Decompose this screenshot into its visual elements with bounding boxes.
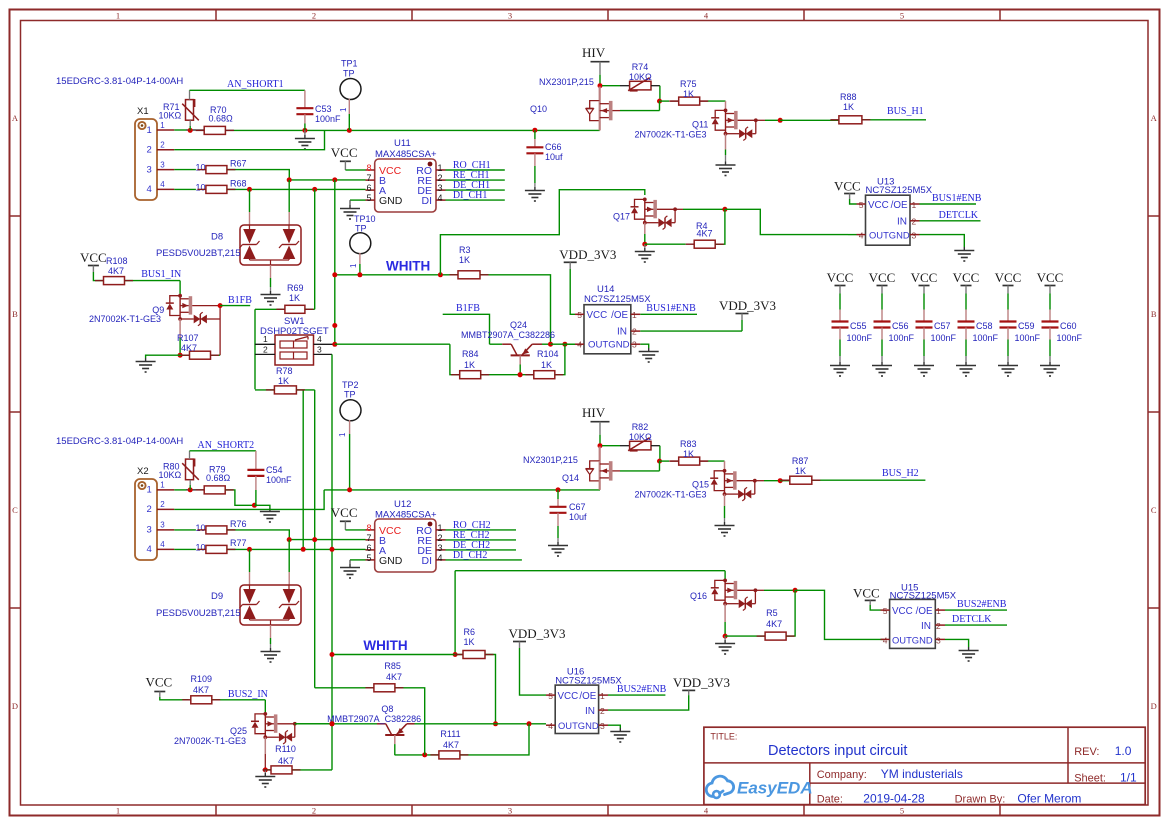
svg-text:4: 4 xyxy=(438,193,443,203)
svg-text:1K: 1K xyxy=(683,449,694,459)
svg-text:C56: C56 xyxy=(892,321,909,331)
svg-text:VDD_3V3: VDD_3V3 xyxy=(509,626,566,641)
svg-text:Q10: Q10 xyxy=(530,104,547,114)
svg-text:C: C xyxy=(12,505,18,515)
svg-text:AN_SHORT2: AN_SHORT2 xyxy=(198,440,255,451)
svg-text:1K: 1K xyxy=(795,466,806,476)
svg-text:8: 8 xyxy=(366,163,371,173)
svg-text:IN: IN xyxy=(617,327,627,338)
svg-text:2: 2 xyxy=(312,805,316,815)
svg-text:D9: D9 xyxy=(211,591,223,602)
svg-text:R109: R109 xyxy=(191,674,213,684)
svg-text:R104: R104 xyxy=(537,349,559,359)
svg-text:2: 2 xyxy=(160,500,165,509)
svg-text:4: 4 xyxy=(160,540,165,549)
svg-text:7: 7 xyxy=(366,533,371,543)
svg-text:B1FB: B1FB xyxy=(456,303,480,314)
svg-text:4K7: 4K7 xyxy=(697,229,713,239)
svg-text:R85: R85 xyxy=(384,661,401,671)
svg-text:OUTGND: OUTGND xyxy=(588,340,630,351)
svg-text:DI: DI xyxy=(422,555,433,567)
svg-text:PESD5V0U2BT,215: PESD5V0U2BT,215 xyxy=(156,608,241,619)
svg-text:2: 2 xyxy=(263,345,268,355)
svg-text:3: 3 xyxy=(160,521,165,530)
svg-text:100nF: 100nF xyxy=(315,114,341,124)
svg-text:VCC: VCC xyxy=(827,270,854,285)
svg-text:BUS2#ENB: BUS2#ENB xyxy=(617,684,667,695)
svg-text:NC7SZ125M5X: NC7SZ125M5X xyxy=(890,590,957,601)
svg-text:R74: R74 xyxy=(632,62,649,72)
svg-text:Detectors input circuit: Detectors input circuit xyxy=(768,743,907,759)
svg-text:R5: R5 xyxy=(766,608,778,618)
svg-text:VCC: VCC xyxy=(995,270,1022,285)
svg-text:1: 1 xyxy=(438,163,443,173)
svg-text:1: 1 xyxy=(912,200,917,210)
svg-text:B: B xyxy=(1151,309,1157,319)
svg-text:C58: C58 xyxy=(976,321,993,331)
svg-text:3: 3 xyxy=(147,164,152,175)
svg-text:2N7002K-T1-GE3: 2N7002K-T1-GE3 xyxy=(89,314,161,324)
svg-text:R83: R83 xyxy=(680,439,697,449)
svg-text:OUTGND: OUTGND xyxy=(892,635,933,646)
svg-text:1: 1 xyxy=(263,334,268,344)
svg-text:10: 10 xyxy=(196,182,206,192)
svg-text:2N7002K-T1-GE3: 2N7002K-T1-GE3 xyxy=(635,129,707,139)
svg-text:3: 3 xyxy=(438,543,443,553)
svg-text:C66: C66 xyxy=(545,142,562,152)
svg-text:1K: 1K xyxy=(289,293,300,303)
svg-text:2019-04-28: 2019-04-28 xyxy=(863,791,925,805)
svg-text:3: 3 xyxy=(147,525,152,536)
svg-text:4K7: 4K7 xyxy=(193,685,209,695)
svg-text:BUS_H1: BUS_H1 xyxy=(887,106,924,117)
svg-text:C: C xyxy=(1151,505,1157,515)
svg-text:Sheet:: Sheet: xyxy=(1074,772,1106,784)
svg-text:2: 2 xyxy=(438,533,443,543)
svg-text:R87: R87 xyxy=(792,456,809,466)
svg-text:1: 1 xyxy=(160,121,165,130)
svg-text:4K7: 4K7 xyxy=(181,343,197,353)
svg-text:3: 3 xyxy=(508,805,512,815)
svg-text:Date:: Date: xyxy=(817,793,843,805)
svg-text:15EDGRC-3.81-04P-14-00AH: 15EDGRC-3.81-04P-14-00AH xyxy=(56,76,183,87)
svg-text:HIV: HIV xyxy=(582,45,606,60)
svg-text:R111: R111 xyxy=(440,729,460,739)
svg-text:VCC: VCC xyxy=(146,675,173,690)
svg-text:2: 2 xyxy=(438,173,443,183)
svg-text:A: A xyxy=(1151,113,1158,123)
svg-text:R107: R107 xyxy=(177,333,199,343)
svg-text:4: 4 xyxy=(147,184,152,195)
svg-text:5: 5 xyxy=(859,200,864,210)
svg-text:10uf: 10uf xyxy=(545,152,563,162)
svg-text:U11: U11 xyxy=(394,138,411,149)
svg-text:2: 2 xyxy=(312,10,316,20)
svg-text:R67: R67 xyxy=(230,159,247,169)
svg-text:VDD_3V3: VDD_3V3 xyxy=(719,298,776,313)
svg-text:Q15: Q15 xyxy=(692,480,709,490)
svg-text:IN: IN xyxy=(585,706,595,717)
svg-text:1: 1 xyxy=(116,10,120,20)
svg-text:C67: C67 xyxy=(569,502,586,512)
svg-text:OUTGND: OUTGND xyxy=(558,720,599,731)
svg-text:REV:: REV: xyxy=(1074,746,1099,758)
svg-text:1K: 1K xyxy=(459,255,470,265)
svg-text:R88: R88 xyxy=(840,92,857,102)
svg-text:/OE: /OE xyxy=(891,200,908,211)
svg-text:B: B xyxy=(12,309,18,319)
svg-text:MMBT2907A_C382286: MMBT2907A_C382286 xyxy=(461,330,555,340)
svg-text:R82: R82 xyxy=(632,422,649,432)
svg-text:NX2301P,215: NX2301P,215 xyxy=(523,455,578,465)
svg-text:A: A xyxy=(12,113,19,123)
svg-text:1.0: 1.0 xyxy=(1115,744,1132,758)
svg-text:C53: C53 xyxy=(315,104,332,114)
svg-text:0.68Ω: 0.68Ω xyxy=(209,113,234,123)
svg-text:TP: TP xyxy=(343,69,355,79)
svg-text:1: 1 xyxy=(438,523,443,533)
svg-text:R68: R68 xyxy=(230,178,247,188)
svg-text:4: 4 xyxy=(147,544,152,555)
svg-text:Q25: Q25 xyxy=(230,726,247,736)
svg-text:Q14: Q14 xyxy=(562,473,579,483)
svg-text:R3: R3 xyxy=(459,245,471,255)
svg-text:1: 1 xyxy=(116,805,120,815)
svg-text:R108: R108 xyxy=(106,256,128,266)
svg-text:4K7: 4K7 xyxy=(108,266,124,276)
svg-text:VCC: VCC xyxy=(834,179,861,194)
svg-text:1: 1 xyxy=(147,485,152,496)
svg-text:6: 6 xyxy=(366,183,371,193)
svg-text:BUS1_IN: BUS1_IN xyxy=(141,269,181,280)
svg-text:PESD5V0U2BT,215: PESD5V0U2BT,215 xyxy=(156,248,241,259)
svg-text:VCC: VCC xyxy=(587,310,608,321)
svg-text:MAX485CSA+: MAX485CSA+ xyxy=(375,510,437,521)
svg-text:MAX485CSA+: MAX485CSA+ xyxy=(375,149,437,160)
svg-text:Q8: Q8 xyxy=(381,704,393,714)
svg-text:DETCLK: DETCLK xyxy=(952,614,992,625)
svg-text:4K7: 4K7 xyxy=(278,756,294,766)
svg-text:3: 3 xyxy=(160,160,165,169)
svg-text:4: 4 xyxy=(317,334,322,344)
svg-text:C57: C57 xyxy=(934,321,951,331)
svg-text:VCC: VCC xyxy=(911,270,938,285)
svg-text:15EDGRC-3.81-04P-14-00AH: 15EDGRC-3.81-04P-14-00AH xyxy=(56,436,183,447)
svg-text:100nF: 100nF xyxy=(1057,333,1083,343)
svg-text:5: 5 xyxy=(366,193,371,203)
svg-text:100nF: 100nF xyxy=(889,333,915,343)
svg-text:Q17: Q17 xyxy=(613,212,630,222)
svg-text:100nF: 100nF xyxy=(973,333,999,343)
svg-text:NC7SZ125M5X: NC7SZ125M5X xyxy=(866,185,933,196)
svg-text:DETCLK: DETCLK xyxy=(939,210,979,221)
svg-text:BUS2#ENB: BUS2#ENB xyxy=(957,599,1007,610)
svg-text:TP: TP xyxy=(344,390,356,400)
svg-text:5: 5 xyxy=(900,10,904,20)
svg-text:C55: C55 xyxy=(850,321,867,331)
svg-text:2: 2 xyxy=(600,706,605,716)
svg-text:R75: R75 xyxy=(680,79,697,89)
svg-text:NX2301P,215: NX2301P,215 xyxy=(539,77,594,87)
svg-text:BUS1#ENB: BUS1#ENB xyxy=(646,303,696,314)
svg-text:100nF: 100nF xyxy=(266,475,292,485)
svg-text:D: D xyxy=(12,701,18,711)
svg-text:2N7002K-T1-GE3: 2N7002K-T1-GE3 xyxy=(635,490,707,500)
svg-text:VCC: VCC xyxy=(953,270,980,285)
svg-text:VCC: VCC xyxy=(331,145,358,160)
svg-text:1: 1 xyxy=(338,432,347,437)
svg-text:EasyEDA: EasyEDA xyxy=(737,779,813,798)
svg-text:MMBT2907A_C382286: MMBT2907A_C382286 xyxy=(327,714,421,724)
svg-text:VCC: VCC xyxy=(868,200,889,211)
svg-text:4K7: 4K7 xyxy=(443,740,459,750)
svg-text:B1FB: B1FB xyxy=(228,295,252,306)
svg-text:WHITH: WHITH xyxy=(386,259,430,274)
svg-text:3: 3 xyxy=(936,636,941,646)
svg-text:1K: 1K xyxy=(683,89,694,99)
svg-text:DI: DI xyxy=(422,195,433,207)
svg-text:NC7SZ125M5X: NC7SZ125M5X xyxy=(555,676,622,687)
svg-text:VCC: VCC xyxy=(892,606,913,617)
svg-text:/OE: /OE xyxy=(916,606,933,617)
svg-text:D: D xyxy=(1151,701,1157,711)
svg-text:Q16: Q16 xyxy=(690,591,707,601)
svg-text:DI_CH2: DI_CH2 xyxy=(453,550,487,561)
svg-text:Company:: Company: xyxy=(817,769,867,781)
svg-text:BUS1#ENB: BUS1#ENB xyxy=(932,193,982,204)
svg-text:BUS2_IN: BUS2_IN xyxy=(228,689,268,700)
svg-text:GND: GND xyxy=(379,555,403,567)
svg-text:VCC: VCC xyxy=(331,505,358,520)
svg-text:C60: C60 xyxy=(1060,321,1077,331)
svg-text:1/1: 1/1 xyxy=(1120,770,1137,784)
svg-text:GND: GND xyxy=(379,195,403,207)
svg-text:1: 1 xyxy=(339,107,348,112)
svg-text:AN_SHORT1: AN_SHORT1 xyxy=(227,79,284,90)
svg-text:100nF: 100nF xyxy=(931,333,957,343)
svg-text:Q24: Q24 xyxy=(510,320,527,330)
svg-text:Ofer Merom: Ofer Merom xyxy=(1017,791,1081,805)
svg-text:1K: 1K xyxy=(464,360,475,370)
svg-text:8: 8 xyxy=(366,523,371,533)
svg-text:NC7SZ125M5X: NC7SZ125M5X xyxy=(584,294,651,305)
svg-text:YM industerials: YM industerials xyxy=(881,767,963,781)
svg-text:IN: IN xyxy=(921,621,931,632)
svg-text:/OE: /OE xyxy=(611,310,628,321)
svg-text:R6: R6 xyxy=(464,627,476,637)
svg-text:U12: U12 xyxy=(394,499,411,510)
svg-text:4: 4 xyxy=(883,636,888,646)
svg-text:C59: C59 xyxy=(1018,321,1035,331)
svg-text:R76: R76 xyxy=(230,519,247,529)
svg-text:2: 2 xyxy=(147,504,152,515)
svg-text:C54: C54 xyxy=(266,465,283,475)
svg-text:100nF: 100nF xyxy=(847,333,873,343)
svg-text:Drawn By:: Drawn By: xyxy=(955,793,1006,805)
svg-text:VCC: VCC xyxy=(558,691,579,702)
svg-text:4: 4 xyxy=(160,180,165,189)
svg-text:VCC: VCC xyxy=(80,250,107,265)
svg-text:2: 2 xyxy=(147,145,152,156)
svg-text:VCC: VCC xyxy=(853,586,880,601)
svg-text:10: 10 xyxy=(196,523,206,533)
svg-text:VCC: VCC xyxy=(1037,270,1064,285)
svg-text:D8: D8 xyxy=(211,232,223,243)
svg-text:10: 10 xyxy=(196,542,206,552)
svg-text:R110: R110 xyxy=(275,744,296,754)
svg-text:3: 3 xyxy=(438,183,443,193)
svg-text:1: 1 xyxy=(147,125,152,136)
svg-text:10KΩ: 10KΩ xyxy=(629,432,652,442)
svg-text:VDD_3V3: VDD_3V3 xyxy=(559,247,616,262)
svg-text:6: 6 xyxy=(366,543,371,553)
svg-text:5: 5 xyxy=(900,805,904,815)
svg-text:10uf: 10uf xyxy=(569,512,587,522)
svg-text:X1: X1 xyxy=(137,106,149,117)
svg-text:10KΩ: 10KΩ xyxy=(159,110,182,120)
svg-text:100nF: 100nF xyxy=(1015,333,1041,343)
svg-text:5: 5 xyxy=(366,553,371,563)
svg-text:VDD_3V3: VDD_3V3 xyxy=(673,675,730,690)
svg-text:10KΩ: 10KΩ xyxy=(159,470,182,480)
svg-text:1K: 1K xyxy=(278,376,289,386)
svg-text:TP1: TP1 xyxy=(341,59,358,69)
svg-text:Q11: Q11 xyxy=(692,119,708,129)
svg-text:BUS_H2: BUS_H2 xyxy=(882,468,919,479)
svg-text:1K: 1K xyxy=(541,360,552,370)
svg-text:4K7: 4K7 xyxy=(386,672,402,682)
svg-text:/OE: /OE xyxy=(579,691,596,702)
svg-text:2N7002K-T1-GE3: 2N7002K-T1-GE3 xyxy=(174,736,246,746)
svg-text:R69: R69 xyxy=(287,283,304,293)
svg-text:4: 4 xyxy=(438,553,443,563)
svg-text:1K: 1K xyxy=(464,637,475,647)
svg-text:10KΩ: 10KΩ xyxy=(629,72,652,82)
svg-text:1: 1 xyxy=(349,263,358,268)
svg-text:7: 7 xyxy=(366,173,371,183)
svg-text:R78: R78 xyxy=(276,366,293,376)
svg-text:R77: R77 xyxy=(230,538,247,548)
svg-text:X2: X2 xyxy=(137,466,149,477)
svg-text:4K7: 4K7 xyxy=(766,619,782,629)
svg-text:10: 10 xyxy=(196,163,206,173)
svg-text:DI_CH1: DI_CH1 xyxy=(453,190,487,201)
svg-text:WHITH: WHITH xyxy=(363,638,407,653)
svg-text:HIV: HIV xyxy=(582,405,606,420)
svg-text:TP2: TP2 xyxy=(342,380,359,390)
svg-text:TITLE:: TITLE: xyxy=(710,732,737,742)
svg-text:R84: R84 xyxy=(462,349,479,359)
svg-text:0.68Ω: 0.68Ω xyxy=(206,473,231,483)
svg-text:1K: 1K xyxy=(843,102,854,112)
svg-text:3: 3 xyxy=(508,10,512,20)
svg-text:OUTGND: OUTGND xyxy=(869,229,910,240)
svg-text:VCC: VCC xyxy=(869,270,896,285)
svg-text:TP10: TP10 xyxy=(354,214,376,224)
svg-text:1: 1 xyxy=(160,481,165,490)
svg-text:2: 2 xyxy=(160,141,165,150)
svg-text:3: 3 xyxy=(317,345,322,355)
svg-text:IN: IN xyxy=(897,217,907,228)
svg-text:2: 2 xyxy=(936,621,941,631)
